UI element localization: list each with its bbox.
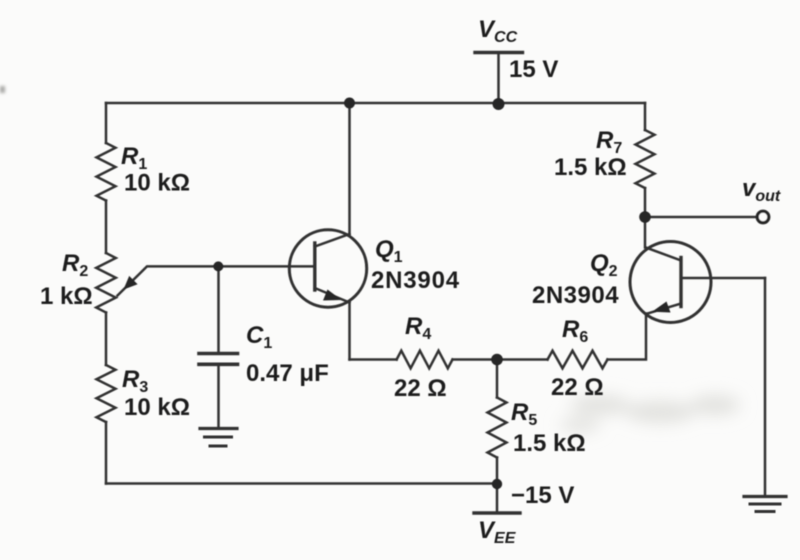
transistor Q1 emitter lead (315, 288, 350, 303)
stray scan mark left edge (0, 86, 5, 93)
resistor R1 (97, 143, 116, 201)
svg-text:22 Ω: 22 Ω (551, 374, 604, 401)
transistor Q1 collector lead (315, 234, 350, 247)
wire R5 upper lead (496, 360, 499, 398)
wire R7 upper lead (644, 103, 647, 130)
terminal vout open circle (757, 211, 769, 223)
power VEE bar (474, 511, 520, 514)
svg-text:0.47 μF: 0.47 μF (246, 360, 329, 387)
resistor R6 (548, 351, 608, 369)
svg-text:10 kΩ: 10 kΩ (124, 394, 190, 421)
node junction base/wiper/C1 (213, 261, 223, 271)
node junction vout (639, 211, 651, 223)
svg-text:1 kΩ: 1 kΩ (40, 283, 93, 310)
power VCC bar (475, 51, 523, 54)
wire base node to Q1 (218, 265, 314, 268)
wire vout node to Q2 collector (644, 217, 647, 248)
wire VEE stub (496, 484, 499, 513)
wire C1 upper lead (217, 266, 220, 352)
transistor Q1 body (289, 230, 366, 307)
wire R1 to R2 (105, 201, 108, 254)
arrowhead pot wiper (124, 276, 138, 290)
faint page bleed-through smudges (560, 395, 740, 432)
transistor Q2 body (630, 242, 711, 323)
arrowhead Q1 emitter (323, 290, 342, 301)
svg-text:15 V: 15 V (509, 56, 558, 83)
wire Q1 collector (348, 103, 351, 234)
node junction top rail / Q1 collector (344, 98, 355, 109)
resistor R7 (636, 130, 655, 188)
wire Q1 emitter to R4 (350, 358, 397, 361)
arrowhead Q2 emitter (652, 302, 671, 313)
ground (C1) (200, 427, 237, 430)
wire vout lead (645, 216, 756, 219)
capacitor C1 (199, 352, 238, 356)
svg-text:22 Ω: 22 Ω (394, 375, 447, 402)
wire right drop to ground (764, 278, 767, 495)
wire Q1 emitter drop (348, 303, 351, 360)
wire R7 to vout node (644, 188, 647, 217)
resistor R2 (potentiometer body) (96, 253, 116, 312)
wire C1 to ground (217, 366, 220, 427)
wire R3 to bottom rail (105, 422, 108, 484)
transistor Q2 base bar (679, 258, 682, 307)
transistor Q2 emitter lead (646, 304, 681, 315)
wire VCC drop (497, 53, 500, 105)
resistor R3 (97, 365, 116, 422)
node junction VEE (492, 479, 502, 489)
node junction R4/R5/R6 (491, 354, 503, 366)
node junction VCC (493, 98, 505, 110)
svg-text:2N3904: 2N3904 (371, 267, 460, 294)
wire pot wiper lead (118, 266, 219, 295)
transistor Q1 base bar (313, 243, 316, 290)
wire left branch upper (105, 103, 108, 143)
wire top rail (106, 102, 645, 105)
resistor R4 (397, 351, 453, 369)
wire R6 to Q2 emitter (608, 314, 647, 360)
svg-text:10 kΩ: 10 kΩ (124, 170, 190, 197)
svg-text:1.5 kΩ: 1.5 kΩ (513, 430, 586, 457)
resistor R5 (488, 398, 507, 458)
svg-text:−15 V: −15 V (511, 482, 574, 509)
svg-text:2N3904: 2N3904 (532, 282, 619, 309)
wire R5 lower lead (496, 458, 499, 484)
wire R4 to R6 (453, 358, 548, 361)
ground (right) (744, 495, 786, 498)
svg-text:1.5 kΩ: 1.5 kΩ (554, 154, 627, 181)
wire bottom rail (106, 482, 497, 485)
wire Q2 base to right drop (681, 277, 765, 280)
transistor Q2 collector lead (646, 248, 681, 261)
wire R2 to R3 (105, 313, 108, 366)
